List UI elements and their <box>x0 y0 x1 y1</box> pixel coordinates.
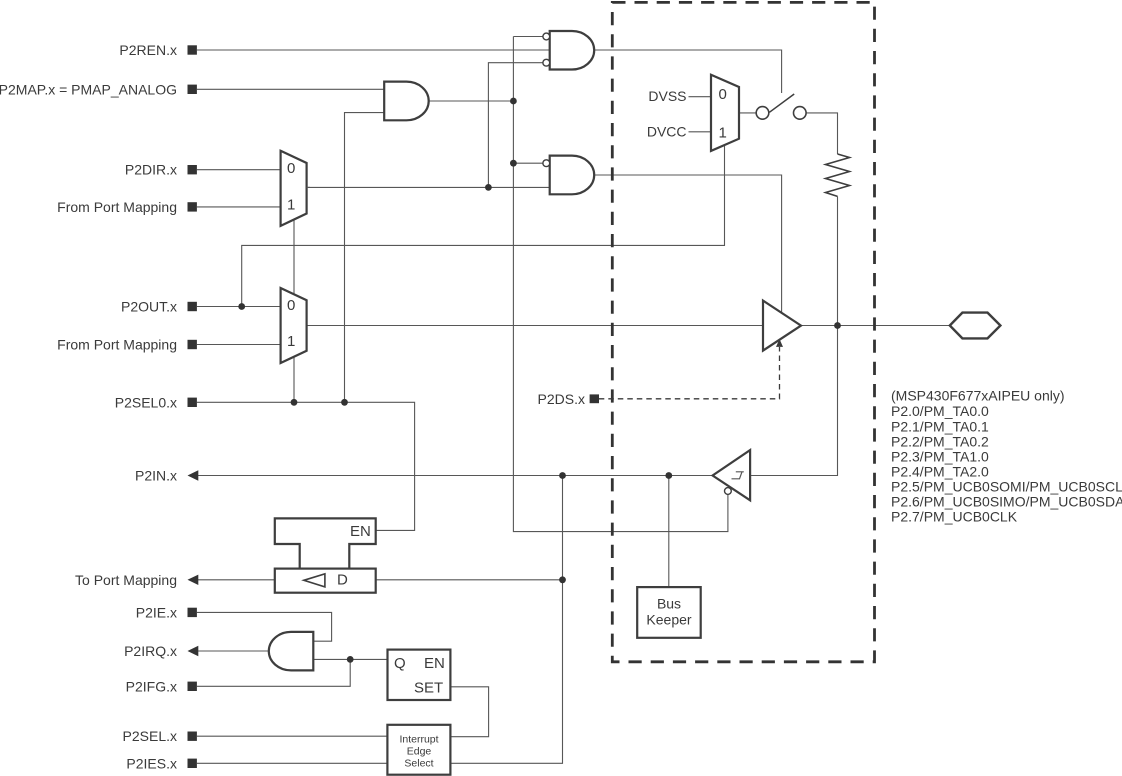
svg-text:Interrupt: Interrupt <box>399 734 438 746</box>
wire P2DIR.x to mux M1 input 0 <box>197 169 281 171</box>
svg-text:P2MAP.x = PMAP_ANALOG: P2MAP.x = PMAP_ANALOG <box>0 81 177 97</box>
label P2DIR.x <box>125 162 197 178</box>
svg-text:Bus: Bus <box>657 595 681 611</box>
label P2REN.x <box>119 42 196 58</box>
label P2MAP.x = PMAP_ANALOG <box>0 81 197 97</box>
latch D box <box>275 569 376 593</box>
wire mux M1 select to mux M2 select to P2SEL0 <box>293 220 295 403</box>
switch SW1 <box>756 94 806 119</box>
interrupt edge select box <box>387 725 450 775</box>
schmitt trigger input buffer U5 <box>713 450 751 500</box>
svg-text:P2OUT.x: P2OUT.x <box>121 299 177 315</box>
wire mux M1 output <box>307 186 310 188</box>
NAND U2 (output enable gate, one inverted input) <box>543 156 594 195</box>
wire AND U3 output net (analog enable) <box>513 36 543 38</box>
interrupt flag latch (Q EN SET) <box>388 650 451 700</box>
wire P2REN.x to NAND U1 <box>197 49 550 51</box>
junction node analog enable at U2 input <box>510 160 517 167</box>
wire P2IES.x to interrupt edge select <box>197 762 388 764</box>
wire pin node to schmitt U5 input <box>750 326 837 476</box>
junction node P2OUT branch <box>238 303 245 310</box>
label P2IRQ.x with arrow <box>124 643 198 659</box>
svg-text:P2REN.x: P2REN.x <box>119 42 177 58</box>
wire P2OUT branch to mux M3 select <box>242 146 725 307</box>
svg-text:P2.1/PM_TA0.1: P2.1/PM_TA0.1 <box>891 418 989 434</box>
label To Port Mapping with arrow <box>75 572 198 588</box>
svg-text:0: 0 <box>287 160 295 177</box>
svg-text:P2.0/PM_TA0.0: P2.0/PM_TA0.0 <box>891 403 989 419</box>
NAND U1 (REN gate, two inverted inputs) <box>543 31 594 70</box>
wire mux M1 output branch to NAND U1 inverted input <box>488 63 543 188</box>
wire switch SW1 to resistor R1 <box>806 113 837 154</box>
wire AND U6 input from Q latch <box>313 658 387 660</box>
svg-text:0: 0 <box>287 297 295 314</box>
svg-text:EN: EN <box>350 523 371 540</box>
mux M3 (DVSS/DVCC select) <box>711 75 739 151</box>
svg-text:1: 1 <box>719 125 727 142</box>
label P2OUT.x <box>121 299 197 315</box>
svg-text:Keeper: Keeper <box>646 612 691 628</box>
junction node pin <box>834 322 841 329</box>
wire SET input from interrupt edge select <box>450 687 488 737</box>
svg-text:P2.5/PM_UCB0SOMI/PM_UCB0SCL: P2.5/PM_UCB0SOMI/PM_UCB0SCL <box>891 479 1122 495</box>
label From Port Mapping (OUT) <box>57 337 197 353</box>
svg-text:Select: Select <box>404 757 433 769</box>
pin name list text <box>891 388 1122 525</box>
svg-text:P2.6/PM_UCB0SIMO/PM_UCB0SDA: P2.6/PM_UCB0SIMO/PM_UCB0SDA <box>891 494 1122 510</box>
P2DS.x dashed control line with arrow <box>599 339 783 399</box>
junction node latch D input <box>559 576 566 583</box>
svg-text:P2IFG.x: P2IFG.x <box>126 678 177 694</box>
svg-text:P2.3/PM_TA1.0: P2.3/PM_TA1.0 <box>891 448 989 464</box>
AND U6 (interrupt gate, mirrored) <box>269 632 314 671</box>
wire To Port Mapping from latch D <box>198 579 275 581</box>
wire NAND U2 output to driver U4 enable <box>594 175 781 313</box>
svg-text:To Port Mapping: To Port Mapping <box>75 572 177 588</box>
svg-text:EN: EN <box>424 655 445 672</box>
wire P2IN branch to bus keeper <box>668 476 670 588</box>
svg-text:P2.7/PM_UCB0CLK: P2.7/PM_UCB0CLK <box>891 509 1018 525</box>
wire P2SEL.x to interrupt edge select <box>197 735 388 737</box>
AND U3 (PMAP_ANALOG gate) <box>384 82 429 121</box>
svg-text:P2IN.x: P2IN.x <box>135 468 177 484</box>
svg-text:D: D <box>337 572 348 589</box>
label P2SEL.x <box>123 728 197 744</box>
wire P2IN branch down to interrupt edge select <box>450 476 562 764</box>
latch EN box <box>275 518 376 568</box>
svg-text:Q: Q <box>394 655 406 672</box>
label P2IES.x <box>126 755 196 771</box>
wire From Port Mapping to mux M2 input 1 <box>197 344 281 346</box>
wire mux M3 output to switch SW1 <box>739 112 756 114</box>
wire P2OUT.x to mux M2 input 0 <box>197 306 281 308</box>
junction node P2SEL0 mux select <box>291 399 298 406</box>
dashed module boundary box <box>612 2 874 661</box>
svg-text:P2IRQ.x: P2IRQ.x <box>124 643 177 659</box>
svg-text:1: 1 <box>287 197 295 214</box>
wire AND U6 output to P2IRQ.x <box>198 650 270 652</box>
svg-text:P2.2/PM_TA0.2: P2.2/PM_TA0.2 <box>891 433 989 449</box>
wire P2IE.x to AND U6 <box>197 612 332 641</box>
svg-text:P2IES.x: P2IES.x <box>126 755 177 771</box>
wire analog enable vertical <box>513 37 728 532</box>
svg-text:0: 0 <box>719 86 727 103</box>
svg-text:P2DS.x: P2DS.x <box>538 391 585 407</box>
label P2DS.x <box>538 391 599 407</box>
pad hexagon <box>950 313 1001 339</box>
svg-text:P2DIR.x: P2DIR.x <box>125 162 177 178</box>
svg-text:Edge: Edge <box>407 745 432 757</box>
wire NAND U1 output to switch SW1 <box>594 50 781 93</box>
wire DVCC label to mux M3 <box>689 131 712 133</box>
wire mux M1 output to NAND U2 input <box>307 186 550 188</box>
wire resistor R1 to pin node <box>837 196 839 325</box>
wire latch D input from P2IN branch <box>376 579 563 581</box>
svg-text:P2SEL.x: P2SEL.x <box>123 728 177 744</box>
wire P2SEL0.x to latch EN <box>197 402 415 530</box>
svg-text:SET: SET <box>414 680 443 697</box>
wire mux M2 output to output driver U4 <box>307 325 763 327</box>
junction node analog enable at U3 output <box>510 98 517 105</box>
svg-text:P2SEL0.x: P2SEL0.x <box>115 394 177 410</box>
wire P2IFG.x to Q node <box>197 659 350 686</box>
wire DVSS label to mux M3 <box>689 96 712 98</box>
mux M2 (P2OUT select) <box>281 288 307 363</box>
svg-text:DVSS: DVSS <box>648 88 686 104</box>
junction node IFG Q <box>347 656 354 663</box>
junction node P2IN latch branch <box>559 472 566 479</box>
label P2IE.x <box>136 604 197 620</box>
label P2IN.x with arrow <box>135 468 198 484</box>
wire driver U4 output to pad <box>801 325 950 327</box>
wire AND U3 output <box>429 100 514 102</box>
junction node P2IN bus keeper branch <box>665 472 672 479</box>
label P2IFG.x <box>126 678 197 694</box>
wire P2MAP.x to AND U3 <box>197 88 384 90</box>
wire schmitt U5 output to P2IN.x <box>198 475 713 477</box>
wire analog enable branch to NAND U2 inverted input <box>513 162 543 164</box>
svg-text:From Port Mapping: From Port Mapping <box>57 199 177 215</box>
svg-text:From Port Mapping: From Port Mapping <box>57 337 177 353</box>
bus keeper box <box>637 587 701 638</box>
wire P2SEL0 branch to AND U3 input <box>345 113 385 403</box>
junction node P2SEL0 AND U3 <box>341 399 348 406</box>
label P2SEL0.x <box>115 394 197 410</box>
junction node mux M1 output branch <box>485 184 492 191</box>
svg-text:1: 1 <box>287 333 295 350</box>
svg-text:P2.4/PM_TA2.0: P2.4/PM_TA2.0 <box>891 464 989 480</box>
resistor R1 <box>826 154 850 196</box>
wire From Port Mapping to mux M1 input 1 <box>197 206 281 208</box>
output driver U4 <box>763 301 801 351</box>
svg-text:(MSP430F677xAIPEU only): (MSP430F677xAIPEU only) <box>891 388 1065 404</box>
mux M1 (P2DIR select) <box>281 151 307 226</box>
svg-text:DVCC: DVCC <box>647 124 687 140</box>
svg-text:P2IE.x: P2IE.x <box>136 604 177 620</box>
label From Port Mapping (DIR) <box>57 199 197 215</box>
